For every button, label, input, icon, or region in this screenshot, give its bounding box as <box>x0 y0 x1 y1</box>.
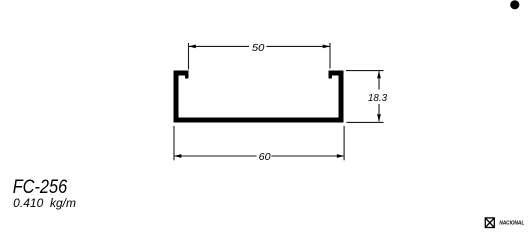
svg-text:NACIONAL: NACIONAL <box>499 220 524 226</box>
dimension 18.3: top arrow <box>377 71 381 78</box>
dimension 18.3: top extension line <box>346 70 384 72</box>
dimension 60: left arrow <box>174 154 181 158</box>
dimension 60: line left segment <box>174 155 257 157</box>
dimension 50: left arrow <box>189 45 196 49</box>
dimension 18.3: bottom extension line <box>347 121 384 123</box>
svg-text:50: 50 <box>252 42 265 54</box>
svg-text:18.3: 18.3 <box>368 92 387 104</box>
dimension 50: line right segment <box>267 45 331 47</box>
dimension 50: line left segment <box>189 45 250 47</box>
dimension 60: right extension line <box>343 126 345 160</box>
profile FC-256 cross-section (C-channel with lips) <box>174 71 344 123</box>
dimension 50: left extension line <box>188 43 190 70</box>
dimension 18.3: bottom arrow <box>377 114 381 121</box>
dimension 60: left extension line <box>173 126 175 160</box>
dimension 50: right arrow <box>323 45 330 49</box>
svg-text:FC-256: FC-256 <box>13 177 68 198</box>
dimension 60: line right segment <box>272 155 345 157</box>
corner dot <box>510 0 519 9</box>
dimension 18.3: line bottom segment <box>378 104 380 121</box>
dimension 50: right extension line <box>329 43 331 69</box>
dimension 18.3: line top segment <box>378 71 380 89</box>
dimension 60: right arrow <box>337 154 344 158</box>
svg-text:60: 60 <box>259 151 271 163</box>
nacional icon: crossed box <box>485 218 494 228</box>
svg-text:0.410 kg/m: 0.410 kg/m <box>13 198 76 210</box>
